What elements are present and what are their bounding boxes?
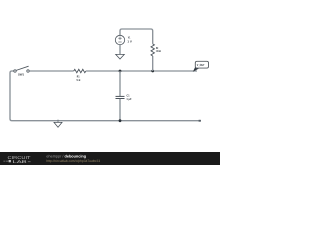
node A junction on main wire (cap branch)	[119, 70, 122, 73]
wire node C to R2	[152, 56, 154, 71]
switch SW1	[14, 66, 29, 76]
footer watermark bar	[0, 152, 220, 165]
svg-text:http://circuitlab.com/c/php347: http://circuitlab.com/c/php347ewbr23	[46, 159, 100, 163]
node B junction on bottom wire	[119, 119, 122, 122]
svg-text:51 Ω: 51 Ω	[77, 78, 81, 82]
ground GND1 on bottom wire	[54, 120, 62, 128]
svg-text:1 V: 1 V	[127, 39, 132, 43]
wire left rail and bottom wire	[10, 71, 201, 121]
voltage source V1	[115, 35, 132, 44]
wire switch to R1	[29, 70, 73, 72]
open wire end marker bottom right	[199, 120, 201, 122]
svg-text:1 μF: 1 μF	[126, 97, 131, 101]
svg-text:LAB: LAB	[13, 159, 28, 164]
resistor R1	[74, 69, 86, 82]
svg-text:V_OUT: V_OUT	[197, 63, 205, 67]
wire node A to capacitor	[119, 71, 121, 96]
wire capacitor to bottom wire	[119, 99, 121, 121]
wire R2 top over to V1 top	[120, 29, 153, 44]
resistor R2	[151, 44, 161, 56]
wire R1 to V_OUT node	[86, 70, 197, 72]
capacitor C1	[116, 93, 132, 101]
svg-text:ehemppr / debouncing: ehemppr / debouncing	[46, 154, 86, 158]
ground GND2 under V1	[116, 54, 125, 59]
svg-text:SW1: SW1	[18, 72, 24, 76]
node C junction on main wire (R2 branch)	[151, 70, 154, 73]
svg-text:10 kΩ: 10 kΩ	[156, 49, 162, 53]
wire V1 bottom to ground	[119, 45, 121, 55]
V_OUT flag	[193, 61, 209, 72]
